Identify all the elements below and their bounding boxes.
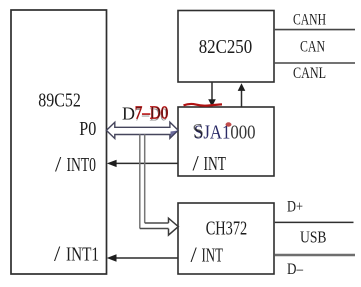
bus elbow bottom line <box>140 228 169 230</box>
wire CH372 /INT to 89C52 /INT1 <box>111 257 178 259</box>
svg-text:/: / <box>193 151 200 176</box>
svg-text:INT1: INT1 <box>66 244 99 266</box>
svg-text:INT: INT <box>202 245 224 267</box>
wire CAN/CANL divider <box>275 62 355 64</box>
svg-text:USB: USB <box>300 228 327 247</box>
svg-text:CANH: CANH <box>293 11 326 28</box>
svg-text:D: D <box>122 104 135 124</box>
svg-text:CAN: CAN <box>300 39 325 56</box>
bus hollow arrowhead into CH372 <box>169 218 179 235</box>
svg-text:/: / <box>54 241 61 266</box>
CAN transceiver block 82C250 <box>178 11 274 83</box>
wire CANH/CAN divider <box>275 29 355 31</box>
bus vertical line inner <box>144 134 146 223</box>
svg-text:7–D0: 7–D0 <box>135 103 169 123</box>
svg-text:S: S <box>192 120 205 143</box>
red annotation dot near A1 <box>226 122 232 126</box>
bus elbow top line <box>145 222 169 224</box>
svg-text:INT: INT <box>204 153 227 175</box>
svg-text:D–: D– <box>287 261 303 278</box>
svg-text:CANL: CANL <box>293 65 326 82</box>
svg-text:82C250: 82C250 <box>199 36 253 58</box>
svg-text:D+: D+ <box>287 199 303 216</box>
wire SJA1000 to 82C250 (up arrow) <box>241 91 243 107</box>
svg-text:89C52: 89C52 <box>38 90 81 112</box>
CAN controller block SJA1000 <box>178 107 274 176</box>
navy smear on right bus arrowhead <box>171 131 178 138</box>
bus D7-D0 double hollow arrow P0 to SJA1000 <box>106 122 178 138</box>
svg-text:CH372: CH372 <box>206 218 248 240</box>
svg-text:/: / <box>55 152 62 177</box>
svg-text:/: / <box>191 242 198 267</box>
MCU block 89C52 <box>11 10 107 274</box>
bus vertical line outer <box>139 134 141 228</box>
wire D+ line <box>275 221 354 223</box>
svg-text:P0: P0 <box>79 118 96 140</box>
wire D- line (gray) <box>275 254 355 256</box>
wire SJA1000 /INT to 89C52 /INT0 <box>111 162 178 164</box>
wire 82C250 to SJA1000 (down arrow) <box>211 83 213 101</box>
svg-text:INT0: INT0 <box>67 154 97 176</box>
USB interface block CH372 <box>178 203 274 274</box>
red annotation squiggle on SJA1000 top edge <box>184 104 223 106</box>
